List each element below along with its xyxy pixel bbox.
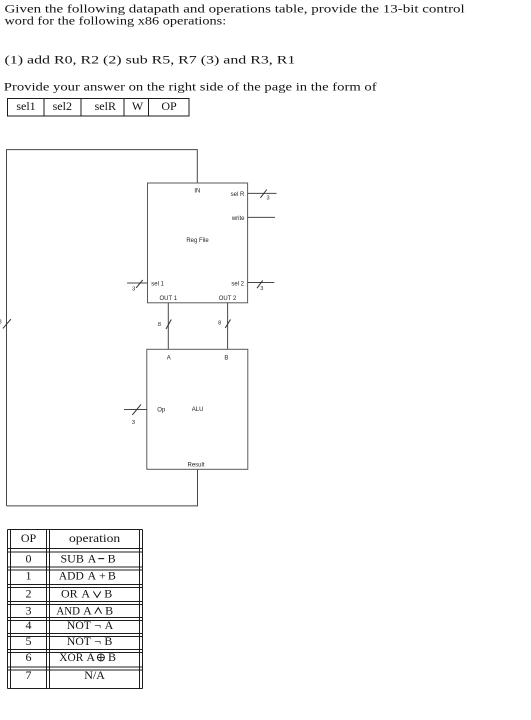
ops row 4 NOT not-A [67,618,114,632]
ops row 1 ADD A + B [59,569,116,583]
svg-text:A: A [83,603,92,617]
svg-text:A: A [105,618,114,632]
svg-text:3: 3 [26,603,32,617]
svg-text:1: 1 [26,569,32,583]
svg-text:A: A [86,650,95,664]
svg-text:B: B [224,356,228,362]
svg-text:SUB: SUB [61,551,84,565]
register file Reg File [148,183,248,303]
svg-text:3: 3 [132,286,135,292]
svg-text:OUT 1: OUT 1 [160,296,178,302]
svg-text:5: 5 [26,634,32,648]
svg-text:sel2: sel2 [53,99,72,113]
svg-text:B: B [108,569,116,583]
bus slash sel R [260,190,266,198]
svg-text:6: 6 [26,650,32,664]
svg-text:A: A [167,356,171,362]
svg-text:operation: operation [69,531,120,545]
svg-text:NOT: NOT [67,634,92,648]
svg-text:8: 8 [0,320,2,326]
svg-text:4: 4 [26,618,32,632]
svg-text:sel 2: sel 2 [231,281,244,287]
wire OUT 2 to B [227,303,229,349]
wire: feedback loop top segment [7,150,198,506]
svg-text:+: + [99,569,106,583]
svg-text:word for the following x86 ope: word for the following x86 operations: [5,13,227,27]
svg-text:N/A: N/A [84,668,105,682]
op-amp ALU block [147,349,248,469]
ops row 3 AND A ^ B [56,603,113,617]
wire Op [124,409,147,411]
wire sel 1 [127,282,147,284]
svg-text:(1) add R0, R2 (2) sub R5, R7: (1) add R0, R2 (2) sub R5, R7 (3) and R3… [5,53,296,67]
wire sel 2 [248,282,274,284]
answer-format table grid [7,98,189,116]
svg-text:B: B [108,650,116,664]
svg-text:A: A [88,551,97,565]
svg-text:8: 8 [218,321,221,327]
svg-text:sel R: sel R [231,192,245,198]
svg-text:sel 1: sel 1 [151,282,164,288]
wire sel R [248,192,277,194]
svg-text:A: A [81,587,90,601]
bus slash OUT 2 [225,320,230,329]
svg-text:write: write [231,216,245,222]
wire: result to loop bottom [7,469,198,506]
svg-text:3: 3 [260,286,263,292]
svg-text:IN: IN [194,188,200,194]
svg-text:B: B [108,551,116,565]
bus slash on feedback wire [3,319,11,328]
svg-text:OP: OP [21,531,37,545]
svg-text:ALU: ALU [192,407,204,413]
svg-text:3: 3 [132,420,135,426]
svg-text:Reg File: Reg File [186,238,209,244]
svg-text:3: 3 [266,195,269,201]
svg-text:B: B [105,603,113,617]
bus slash sel 2 [257,280,263,288]
ops row 0 SUB A - B [61,551,116,565]
svg-text:W: W [132,99,144,113]
ops row 5 NOT not-B [67,634,113,648]
svg-text:selR: selR [95,99,116,113]
svg-text:7: 7 [26,668,32,682]
svg-text:sel1: sel1 [16,99,35,113]
svg-text:¬: ¬ [94,618,101,632]
svg-text:2: 2 [26,587,32,601]
svg-text:OUT 2: OUT 2 [219,296,237,302]
bus slash sel 1 [136,280,143,288]
svg-text:AND: AND [56,603,80,617]
wire write [248,216,275,218]
svg-text:A: A [88,569,97,583]
svg-text:B: B [104,634,112,648]
svg-text:OP: OP [161,99,177,113]
svg-text:ADD: ADD [59,569,84,583]
ops table outer + double rules [8,529,143,531]
svg-text:Provide your answer on the rig: Provide your answer on the right side of… [4,80,377,94]
svg-text:8: 8 [158,322,161,328]
svg-text:¬: ¬ [94,634,101,648]
svg-text:XOR: XOR [59,650,83,664]
ops row 6 XOR A xor B [59,650,116,664]
svg-text:0: 0 [26,551,32,565]
svg-text:OR: OR [61,587,78,601]
answer-format table cells [16,99,177,113]
wire OUT 1 to A [167,303,169,349]
ops row 2 OR A v B [61,587,112,601]
svg-text:NOT: NOT [67,618,92,632]
svg-text:Result: Result [187,462,204,468]
bus slash Op [132,404,141,415]
ops table column OP [21,531,37,682]
svg-text:Op: Op [157,408,166,414]
bus slash OUT 1 [166,320,171,330]
svg-text:B: B [104,587,112,601]
